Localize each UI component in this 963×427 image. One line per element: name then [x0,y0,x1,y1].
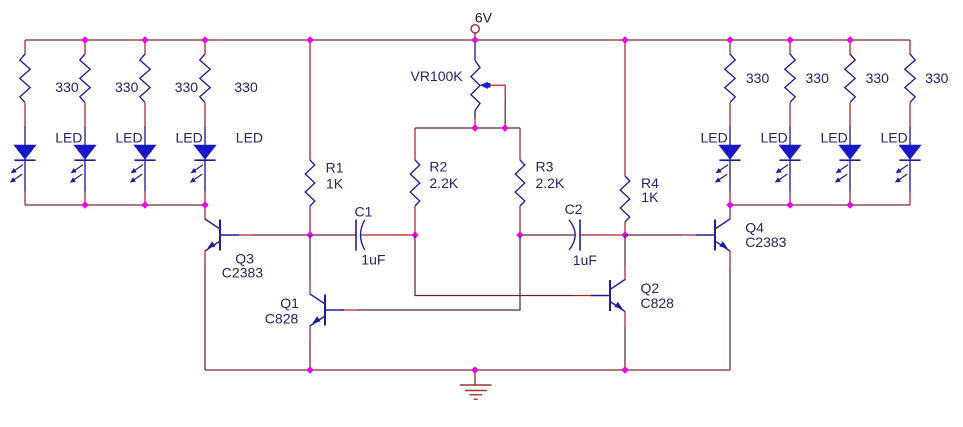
wire: right cathode rail to Q4 collector [729,205,731,220]
junction: right cathode rail x=730 [726,201,733,208]
wire: branch R2 rail to resistor [789,40,791,55]
junction: wiper at node row [501,124,508,131]
junction: top rail x=205 [201,36,208,43]
resistor R1 1K [305,160,315,206]
junction: top rail x=145 [141,36,148,43]
wire: Q1 emitter to ground rail [309,341,311,370]
wire: left LED bank cathode rail [25,204,205,206]
junction: Q2 emitter at ground rail [621,366,628,373]
wire: node A to Q1 collector [309,235,311,280]
junction: top rail x=850 [846,36,853,43]
junction: top rail x=310 [306,36,313,43]
svg-text:LED: LED [236,130,263,146]
wire: ground stem [474,370,476,385]
wire: +6V top rail [25,39,910,41]
wire: node B down and across to Q2 base [415,235,575,296]
LED D4 (left #4) [204,127,206,146]
junction: right cathode rail x=850 [846,201,853,208]
wire: Q1 base red stub [341,309,357,311]
wire: rail to R1 [309,40,311,160]
wire: branch R2 LED to cathode rail [789,191,791,205]
wire: branch R3 resistor to LED [849,103,851,127]
junction: top rail x=790 [786,36,793,43]
wire: R2/R3 top node row [415,127,520,129]
resistor R2 2.2K [410,160,420,206]
wire: branch R4 resistor to LED [909,103,911,127]
wire: branch L1 resistor to LED [24,103,26,127]
junction: ground at rail [471,366,478,373]
terminal 6V [471,25,479,33]
svg-text:LED: LED [881,130,908,146]
junction: node D (C2/R4/Q2 collector/Q4 base) [621,231,628,238]
svg-text:C2383: C2383 [222,265,263,281]
svg-text:1K: 1K [641,189,659,205]
svg-text:330: 330 [806,70,830,86]
svg-text:330: 330 [55,79,79,95]
wire: branch L4 LED to cathode rail [204,191,206,205]
capacitor C1 1uF plate [355,220,357,251]
junction: left cathode rail x=85 [81,201,88,208]
capacitor C2 1uF plate [579,220,581,251]
wire: VR1 bottom lead [474,111,476,119]
svg-text:330: 330 [234,79,258,95]
svg-text:Q2: Q2 [641,280,660,296]
svg-text:6V: 6V [475,10,493,26]
wire: branch R2 resistor to LED [789,103,791,127]
LED D1 (left #1) [24,127,26,146]
svg-text:1uF: 1uF [573,252,597,268]
LED D2 (left #2) [84,127,86,146]
wire: VR1 wiper [490,85,505,100]
wire: node row to R2 [414,128,416,160]
potentiometer VR1 100K [471,61,480,111]
wire: left cathode rail to Q3 collector [204,205,206,220]
wire: branch L2 rail to resistor [84,40,86,55]
transistor Q2 C828 [609,280,611,311]
junction: node A (R1/C1/Q3 base/Q1 collector) [306,231,313,238]
wire: ground rail [205,369,730,371]
junction: node C (R3/C2/Q1 base wire) [516,231,523,238]
wire: Q1 collector red stub [309,280,311,295]
wire: Q3 emitter red stub [204,251,206,267]
wire: Q2 emitter to ground rail [624,327,626,370]
wire: C2 to node D [580,234,625,236]
resistor 330 (left #4) [200,54,210,103]
wire: node row to R3 [519,128,521,160]
resistor 330 (right #2) [785,54,795,103]
LED D5 (right #1) [729,127,731,146]
wire: Q4 base red stub [682,234,697,236]
wire: Q1 emitter red stub [309,326,311,342]
wire: R4 to node D [624,222,626,235]
svg-text:2.2K: 2.2K [429,175,458,191]
svg-text:R1: R1 [326,160,344,176]
svg-text:C2383: C2383 [745,234,786,250]
resistor R4 1K [620,176,630,222]
wire: Q3 base to C1 [253,234,356,236]
wire: Q3 base red stub [239,234,253,236]
potentiometer VR1 wiper arrow [480,82,488,89]
wire: Q4 emitter to ground rail [729,266,731,370]
junction: right cathode rail x=790 [786,201,793,208]
svg-text:2.2K: 2.2K [536,175,565,191]
wire: branch L2 LED to cathode rail [84,191,86,205]
resistor 330 (right #1) [725,54,735,103]
wire: branch R4 LED to cathode rail [909,191,911,205]
wire: node C down and across to Q1 base [357,235,520,310]
svg-text:C1: C1 [355,204,373,220]
resistor 330 (left #1) [20,54,30,103]
wire: right LED bank cathode rail [730,204,910,206]
svg-text:330: 330 [746,70,770,86]
capacitor C1 1uF curved plate [361,220,365,250]
transistor Q4 C2383 [714,220,716,251]
svg-text:C828: C828 [265,311,299,327]
wire: R1 to node A [309,206,311,235]
capacitor C2 1uF curved plate [569,220,575,250]
LED D6 (right #2) [789,127,791,146]
wire: branch R1 rail to resistor [729,40,731,55]
wire: Q4 emitter red stub [729,251,731,267]
svg-text:330: 330 [866,70,890,86]
wire: branch R3 rail to resistor [849,40,851,55]
wire: VR1 wiper down to node row [504,100,506,128]
svg-text:LED: LED [821,130,848,146]
svg-text:1uF: 1uF [361,252,385,268]
junction: top rail x=475 [471,36,478,43]
junction: VR1 bottom at node row [471,124,478,131]
wire: Q3 emitter to ground rail [204,266,206,370]
transistor Q1 C828 [324,295,326,326]
wire: 6V terminal to rail [474,33,476,40]
svg-text:1K: 1K [326,175,344,191]
svg-text:330: 330 [115,79,139,95]
junction: Q1 emitter at ground rail [306,366,313,373]
svg-text:C2: C2 [565,201,583,217]
svg-text:330: 330 [925,70,949,86]
svg-text:LED: LED [701,130,728,146]
resistor 330 (left #2) [80,54,90,103]
svg-text:LED: LED [115,130,142,146]
junction: top rail x=625 [621,36,628,43]
resistor 330 (right #3) [845,54,855,103]
wire: branch R4 rail to resistor [909,40,911,55]
wire: rail to R4 [624,40,626,176]
ground [460,384,492,386]
wire: Q2 base red stub [575,295,592,297]
svg-text:330: 330 [175,79,199,95]
wire: VR1 bottom to node row [474,118,476,128]
wire: branch L3 LED to cathode rail [144,191,146,205]
wire: branch L1 rail to resistor [24,40,26,55]
svg-text:LED: LED [761,130,788,146]
junction: left cathode rail x=145 [141,201,148,208]
resistor R3 2.2K [515,160,525,206]
svg-text:LED: LED [176,130,203,146]
transistor Q3 C2383 [219,220,221,251]
wire: R2 to node B [414,206,416,235]
wire: C1 to node B [361,234,415,236]
wire: Q2 collector red stub [624,266,626,280]
svg-text:C828: C828 [641,295,675,311]
wire: branch L4 rail to resistor [204,40,206,55]
wire: branch L4 resistor to LED [204,103,206,127]
LED D3 (left #3) [144,127,146,146]
junction: top rail x=730 [726,36,733,43]
junction: left cathode rail x=205 [201,201,208,208]
junction: node B (C1/R2/Q2 base wire) [411,231,418,238]
svg-text:R3: R3 [536,158,554,174]
LED D8 (right #4) [909,127,911,146]
wire: branch L3 rail to resistor [144,40,146,55]
resistor 330 (right #4) [905,54,915,103]
wire: branch R1 LED to cathode rail [729,191,731,205]
wire: Q2 emitter red stub [624,311,626,327]
junction: top rail x=85 [81,36,88,43]
wire: node D to Q2 collector [624,235,626,266]
LED D7 (right #3) [849,127,851,146]
wire: node D to Q4 base [625,234,682,236]
wire: VR1 top lead [474,41,476,61]
wire: branch L2 resistor to LED [84,103,86,127]
wire: branch L1 LED to cathode rail [24,191,26,205]
wire: node C to C2 [520,234,575,236]
resistor 330 (left #3) [140,54,150,103]
wire: branch R1 resistor to LED [729,103,731,127]
svg-text:R2: R2 [429,158,447,174]
svg-text:VR100K: VR100K [411,68,464,84]
svg-text:LED: LED [55,130,82,146]
wire: branch L3 resistor to LED [144,103,146,127]
svg-text:Q1: Q1 [280,295,299,311]
wire: branch R3 LED to cathode rail [849,191,851,205]
wire: R3 to node C [519,206,521,235]
